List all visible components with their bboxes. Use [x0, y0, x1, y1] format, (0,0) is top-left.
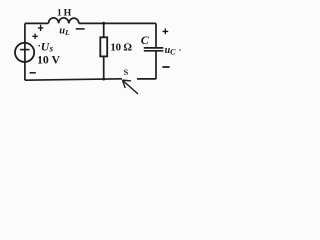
- svg-text:C: C: [141, 33, 150, 47]
- svg-text:uL: uL: [59, 25, 70, 37]
- svg-text:S: S: [124, 68, 129, 77]
- svg-text:10 V: 10 V: [37, 53, 61, 67]
- svg-text:uC: uC: [165, 45, 177, 56]
- svg-text:1 H: 1 H: [57, 8, 72, 19]
- svg-text:10 Ω: 10 Ω: [110, 42, 132, 54]
